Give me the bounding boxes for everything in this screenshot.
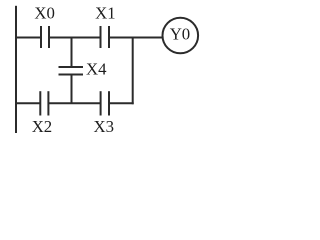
contact X4 [59,67,84,75]
svg-text:Y0: Y0 [170,25,191,44]
wire top rung down to X4 [71,38,73,68]
coil Y0 circle [163,18,199,54]
svg-text:X0: X0 [34,4,55,23]
wire rail to X2 [16,102,40,104]
svg-text:X4: X4 [86,60,107,79]
wire X0 to X1 [49,37,101,39]
contact X3 [101,91,109,115]
svg-text:X3: X3 [94,117,115,136]
wire X4 down to bottom rung [71,75,73,104]
contact X0 [41,26,49,48]
svg-text:X2: X2 [32,117,53,136]
wire X1 to coil Y0 [109,37,163,39]
svg-text:X1: X1 [95,4,116,23]
right branch vertical wire [132,38,134,105]
contact X1 [101,26,110,48]
wire rail to X0 [16,37,41,39]
contact X2 [40,91,48,115]
wire X2 to X3 [48,102,100,104]
left power rail [15,6,17,133]
wire X3 to right branch corner [109,102,134,104]
